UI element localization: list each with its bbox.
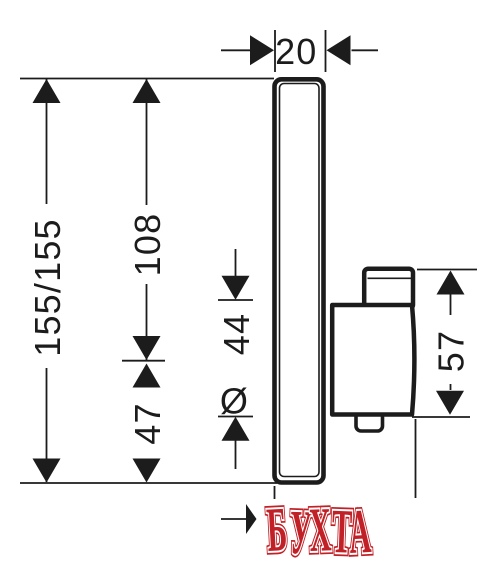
svg-text:20: 20 bbox=[275, 31, 317, 72]
cartridge cap line bbox=[368, 277, 413, 279]
dimension 20 arrow right bbox=[352, 49, 379, 51]
svg-text:108: 108 bbox=[127, 213, 168, 277]
svg-text:Б: Б bbox=[265, 494, 289, 565]
plate outer outline bbox=[275, 79, 324, 482]
dimension 20 arrow left bbox=[221, 49, 250, 51]
small tab clip at bottom of valve body bbox=[356, 412, 383, 431]
bottom pointer arrow bbox=[221, 518, 247, 520]
bottom extension line bbox=[20, 482, 277, 484]
dimension 57 extension lines bbox=[417, 269, 477, 271]
dimension O44 ticks bbox=[218, 299, 253, 301]
dimension O44 line and arrows bbox=[235, 249, 237, 278]
dimension line 108 bbox=[146, 79, 148, 205]
svg-text:Х: Х bbox=[308, 494, 332, 565]
dimension line 155/155 bbox=[46, 79, 48, 204]
logo BUHTA bbox=[265, 494, 373, 567]
plate inner chamfer line bbox=[280, 84, 320, 477]
svg-text:155/155: 155/155 bbox=[27, 218, 68, 357]
cartridge small box on top of valve body bbox=[364, 269, 413, 309]
dimension line 57 bbox=[450, 294, 452, 315]
junction tick at valve axis bbox=[122, 360, 165, 362]
wall line below plate bbox=[274, 486, 276, 499]
dimension 20 extension lines bbox=[274, 30, 276, 72]
top extension line bbox=[20, 78, 274, 80]
svg-text:57: 57 bbox=[431, 330, 472, 372]
valve body box bbox=[332, 305, 414, 415]
extension line below valve body bbox=[415, 419, 417, 498]
svg-text:44: 44 bbox=[216, 313, 257, 355]
svg-text:А: А bbox=[347, 496, 373, 567]
svg-text:47: 47 bbox=[127, 402, 168, 444]
dimension line 47 bbox=[133, 364, 161, 388]
svg-text:Ø: Ø bbox=[220, 380, 249, 421]
